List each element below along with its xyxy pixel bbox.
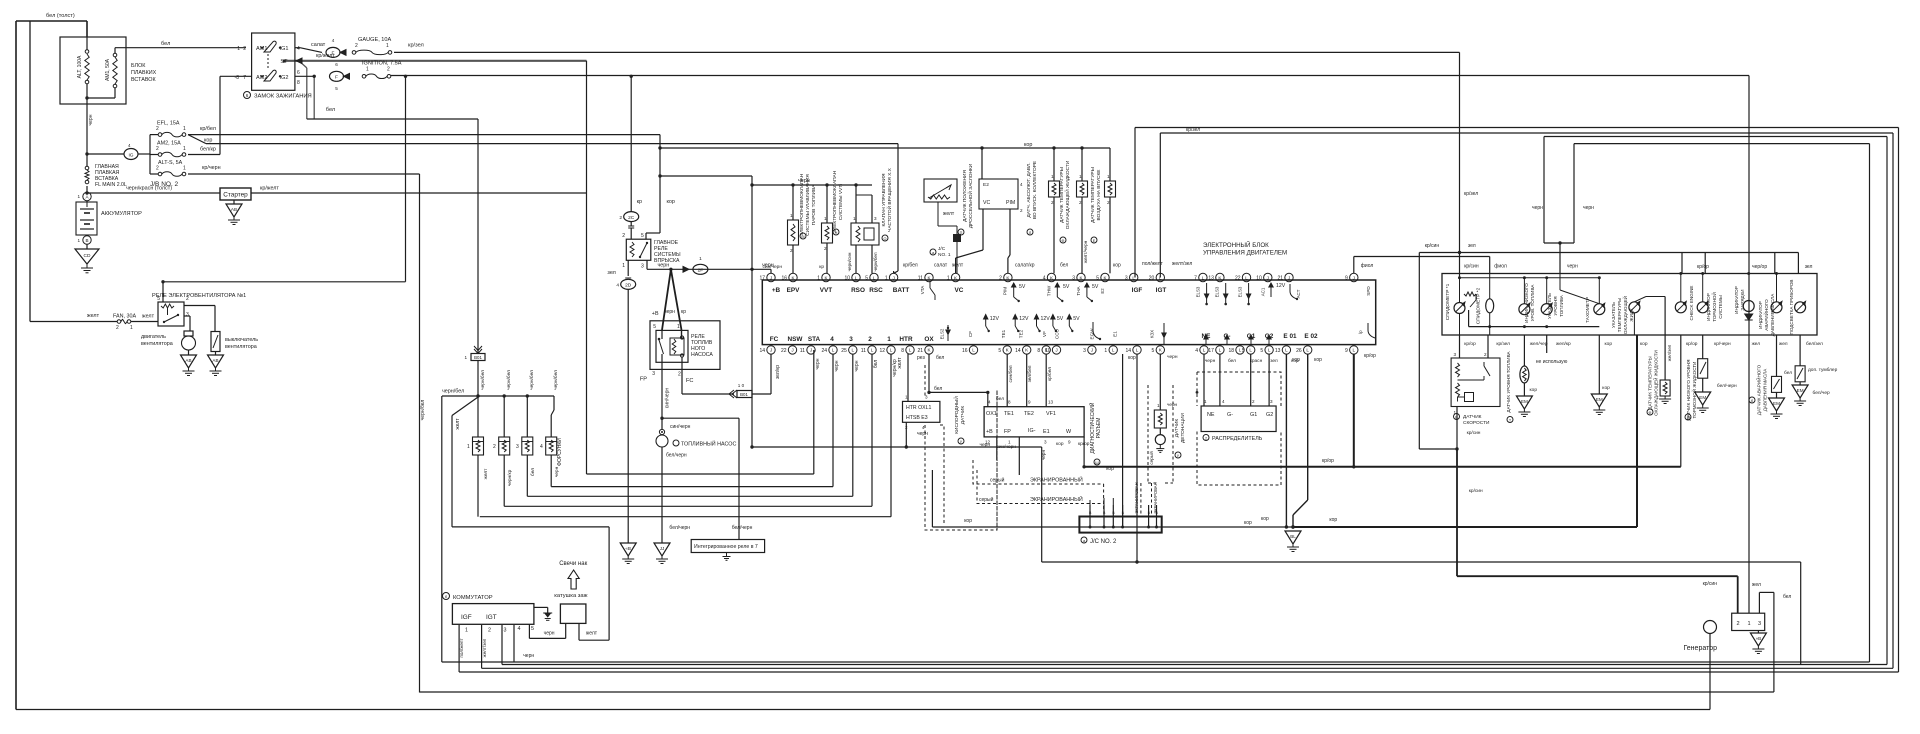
wire tach ground (1598, 335, 1600, 394)
svg-text:8: 8 (901, 348, 904, 354)
svg-text:кор: кор (1106, 466, 1114, 472)
wire IGF loop (1134, 128, 1136, 278)
svg-text:кр/зел: кр/зел (1496, 341, 1510, 347)
svg-text:кр/зел: кр/зел (408, 43, 424, 49)
svg-text:черн: черн (658, 263, 670, 269)
svg-text:ELS2: ELS2 (940, 328, 945, 339)
svg-text:21: 21 (1277, 276, 1283, 282)
wire speed sensor pin1 кр/син (1456, 407, 1458, 450)
svg-text:3: 3 (641, 264, 644, 270)
svg-text:HTSB E3: HTSB E3 (906, 415, 928, 421)
svg-text:VF1: VF1 (1046, 411, 1056, 417)
fuse ALT-S 5A (150, 173, 158, 175)
svg-text:пол/желт: пол/желт (1142, 261, 1164, 267)
svg-text:1: 1 (1748, 621, 1751, 627)
svg-text:J: J (1267, 275, 1269, 280)
wire ST thick to STA (284, 60, 587, 62)
svg-text:2: 2 (678, 372, 681, 378)
svg-text:L: L (972, 348, 975, 353)
svg-text:2: 2 (999, 276, 1002, 282)
wire FP to fuel pump (661, 354, 663, 429)
ground AB fan motor (188, 350, 190, 355)
svg-text:1: 1 (1008, 440, 1011, 445)
svg-text:черн/син: черн/син (847, 252, 852, 271)
svg-text:22: 22 (1235, 276, 1241, 282)
svg-text:ЭКРАНИРОВАН: ЭКРАНИРОВАН (1134, 482, 1139, 513)
sensor ДАТЧИК ТЕМПЕРАТУРЫ ОЖ indicator (1634, 297, 1646, 302)
svg-text:7: 7 (1194, 276, 1197, 282)
ground коммутатор (534, 606, 548, 608)
svg-text:кр/ор: кр/ор (1464, 341, 1476, 347)
wire кр/син thick to generator pin2 (1456, 449, 1458, 576)
svg-text:М: М (801, 235, 804, 239)
svg-text:L: L (1219, 348, 1222, 353)
wire кор E01 E02 to ground BL (1285, 354, 1287, 527)
svg-text:L: L (1353, 348, 1356, 353)
svg-text:J: J (791, 348, 793, 353)
svg-text:рез: рез (917, 355, 925, 361)
svg-text:12: 12 (879, 348, 885, 354)
svg-text:BATT: BATT (893, 287, 910, 294)
svg-text:ALT, 100A: ALT, 100A (77, 55, 83, 78)
battery АККУМУЛЯТОР (83, 192, 91, 200)
svg-text:1: 1 (677, 324, 680, 330)
svg-text:4: 4 (1195, 348, 1198, 354)
svg-text:4: 4 (1043, 276, 1046, 282)
wire зел instrument feed (1419, 252, 1798, 254)
svg-text:кр/желт: кр/желт (316, 53, 335, 59)
svg-text:L: L (1202, 275, 1205, 280)
svg-text:4: 4 (830, 336, 834, 343)
svg-text:черн: черн (815, 358, 821, 369)
svg-text:О: О (884, 237, 887, 241)
sensor ДАТЧИК СКОРОСТИ speed (1459, 314, 1461, 335)
cluster internal lower bus (1469, 326, 1600, 328)
svg-text:B01: B01 (740, 392, 748, 397)
svg-text:4: 4 (988, 400, 991, 405)
svg-text:ДАТЧИК АВАРИЙНОГО: ДАТЧИК АВАРИЙНОГО (1754, 364, 1761, 415)
svg-text:14: 14 (1015, 348, 1021, 354)
wire IG2 to IGNITION fuse (295, 75, 314, 77)
svg-text:Стартер: Стартер (223, 192, 248, 199)
svg-text:черн/бел: черн/бел (420, 400, 426, 421)
block Интегрированное реле (691, 540, 764, 553)
svg-text:1: 1 (183, 146, 186, 152)
svg-text:2: 2 (868, 336, 872, 343)
svg-text:FP: FP (1004, 429, 1011, 435)
svg-text:AC1: AC1 (1261, 287, 1266, 296)
svg-text:EM: EM (1797, 388, 1804, 393)
svg-text:EM: EM (1521, 399, 1528, 404)
svg-text:2F: 2F (698, 268, 704, 274)
svg-text:бел/черн: бел/черн (1717, 383, 1737, 389)
svg-text:J/C: J/C (938, 246, 946, 252)
label замок зажигания (244, 92, 251, 99)
svg-text:кор: кор (1113, 263, 1121, 269)
svg-text:фиол: фиол (1494, 264, 1507, 270)
svg-text:HTR OXL1: HTR OXL1 (906, 405, 931, 411)
svg-text:4: 4 (518, 626, 521, 632)
wire E1 ECU to bottom loop (1136, 354, 1138, 562)
wire fuel gauge не использую (1546, 335, 1548, 353)
svg-text:3: 3 (186, 312, 189, 318)
svg-text:E 02: E 02 (1304, 333, 1318, 340)
wire кор sensors bus (660, 147, 1110, 149)
svg-text:бел/чер: бел/чер (1813, 390, 1831, 396)
svg-text:3: 3 (652, 371, 655, 377)
motor ДВИГАТЕЛЬ ВЕНТИЛЯТОРА (184, 331, 193, 336)
svg-text:НАСОСА: НАСОСА (691, 352, 713, 358)
svg-text:1: 1 (237, 46, 240, 52)
svg-text:J: J (892, 275, 894, 280)
svg-text:ИНДИКАТОР: ИНДИКАТОР (1758, 301, 1763, 329)
svg-text:жел/зел: жел/зел (1667, 344, 1672, 361)
svg-text:9: 9 (1345, 348, 1348, 354)
svg-text:3: 3 (1758, 621, 1761, 627)
svg-text:5: 5 (1096, 276, 1099, 282)
svg-text:5: 5 (531, 626, 534, 632)
svg-text:бел/черн: бел/черн (732, 525, 753, 531)
svg-text:салат/кр: салат/кр (1015, 263, 1035, 269)
svg-text:1: 1 (885, 276, 888, 282)
switch ВЫКЛЮЧАТЕЛЬ ВЕНТИЛЯТОРА (211, 332, 220, 352)
svg-text:кор: кор (1056, 442, 1064, 447)
svg-text:ДАТЧИК: ДАТЧИК (1463, 414, 1482, 420)
svg-text:L: L (1159, 275, 1162, 280)
svg-text:бел: бел (530, 468, 536, 476)
node 1G to fuse rows (85, 152, 88, 155)
svg-text:бел: бел (1783, 594, 1791, 600)
svg-text:VF: VF (1042, 331, 1047, 337)
svg-text:1: 1 (467, 444, 470, 450)
svg-text:2: 2 (243, 46, 246, 52)
svg-text:1: 1 (1107, 174, 1110, 179)
svg-text:кор: кор (204, 138, 212, 144)
shield серый dashed bus (973, 460, 1104, 484)
svg-text:2: 2 (1737, 621, 1740, 627)
svg-text:J: J (810, 348, 812, 353)
svg-text:бел: бел (161, 41, 170, 47)
svg-text:желт: желт (484, 468, 489, 480)
svg-text:черн/бел: черн/бел (506, 370, 512, 390)
svg-text:зел/бел: зел/бел (1027, 365, 1033, 382)
svg-text:Генератор: Генератор (1683, 645, 1717, 652)
svg-text:VTA: VTA (920, 285, 925, 295)
svg-text:5: 5 (1260, 348, 1263, 354)
svg-text:2: 2 (1020, 208, 1023, 213)
wire кор main relay pin5 (659, 230, 661, 233)
svg-text:1: 1 (790, 213, 793, 218)
svg-text:2: 2 (493, 444, 496, 450)
svg-text:ДАТЧИК НИЗКОГО УРОВНЯ: ДАТЧИК НИЗКОГО УРОВНЯ (1686, 360, 1691, 421)
wires to injectors (477, 396, 479, 437)
svg-text:кор: кор (1261, 516, 1269, 522)
svg-text:PIM: PIM (1006, 200, 1015, 206)
svg-text:ВО ВПУСК. КОЛЛЕКТОРЕ: ВО ВПУСК. КОЛЛЕКТОРЕ (1032, 161, 1038, 219)
svg-text:ДАТЧИК: ДАТЧИК (1174, 419, 1180, 438)
svg-text:CHECK ENGINE: CHECK ENGINE (1689, 286, 1694, 321)
svg-text:черн: черн (1567, 264, 1578, 270)
svg-text:PIM: PIM (1003, 287, 1008, 295)
svg-text:12V: 12V (1276, 283, 1286, 289)
svg-text:желт: желт (455, 418, 461, 430)
wire кр/син into cluster (1459, 253, 1461, 278)
svg-text:IGT: IGT (1156, 287, 1167, 294)
svg-text:5: 5 (641, 233, 644, 239)
svg-text:черн: черн (834, 360, 840, 371)
svg-text:E2: E2 (983, 182, 989, 188)
svg-text:1 0: 1 0 (738, 383, 745, 388)
svg-text:L: L (873, 275, 876, 280)
svg-text:желт: желт (897, 357, 903, 369)
svg-text:ОХЛАЖДАЮЩЕЙ ЖИДКОСТИ: ОХЛАЖДАЮЩЕЙ ЖИДКОСТИ (1652, 350, 1659, 416)
svg-text:бел/зел: бел/зел (1806, 341, 1823, 347)
svg-text:AB: AB (231, 207, 237, 212)
svg-text:РАЗЪЕМ: РАЗЪЕМ (1096, 418, 1102, 439)
svg-text:бел: бел (936, 355, 944, 361)
svg-text:4: 4 (332, 38, 335, 43)
svg-text:SPD: SPD (1366, 286, 1371, 296)
svg-text:СПИДОМЕТР *2: СПИДОМЕТР *2 (1476, 287, 1482, 324)
svg-text:ЗАРЯДКИ: ЗАРЯДКИ (1740, 289, 1745, 310)
svg-text:FC: FC (686, 378, 693, 384)
svg-text:E 01: E 01 (1283, 333, 1297, 340)
svg-text:5V: 5V (1063, 284, 1070, 290)
svg-text:1: 1 (824, 216, 827, 221)
wire черн inside cluster to tach (1559, 274, 1561, 291)
svg-text:5: 5 (653, 324, 656, 330)
svg-text:кор: кор (1605, 342, 1613, 347)
connector F gauge (326, 47, 340, 57)
svg-text:17: 17 (1208, 348, 1214, 354)
svg-text:14: 14 (1125, 348, 1131, 354)
svg-text:Ш: Ш (1095, 461, 1099, 465)
svg-text:кор: кор (1128, 355, 1136, 361)
connector B01 fuel (729, 390, 734, 398)
svg-text:доп. тумблер: доп. тумблер (1808, 367, 1838, 373)
svg-text:VC: VC (955, 287, 964, 294)
svg-text:ACT: ACT (1296, 289, 1301, 298)
svg-text:черн: черн (917, 431, 928, 437)
svg-text:бел: бел (326, 107, 335, 113)
switch key contacts (264, 41, 276, 52)
svg-text:кр: кр (681, 309, 686, 315)
svg-text:УРОВ. ТОПЛИВА: УРОВ. ТОПЛИВА (1530, 284, 1535, 322)
svg-text:кор: кор (1640, 342, 1648, 347)
svg-text:EM: EM (1699, 395, 1706, 400)
svg-text:ОХЛАЖДАЮЩЕЙ: ОХЛАЖДАЮЩЕЙ (1621, 296, 1628, 334)
svg-text:B01: B01 (474, 355, 482, 360)
svg-text:1: 1 (1051, 174, 1054, 179)
wire черн to solenoid bus (660, 175, 752, 177)
svg-text:9: 9 (1345, 276, 1348, 282)
svg-text:ИНДИКАТОР: ИНДИКАТОР (1734, 286, 1739, 314)
svg-text:HTR: HTR (899, 336, 913, 343)
svg-text:GAUGE, 10A: GAUGE, 10A (358, 37, 392, 43)
svg-text:черн: черн (1167, 355, 1178, 360)
svg-text:NO. 1: NO. 1 (938, 252, 951, 258)
svg-text:AB: AB (212, 358, 218, 363)
svg-text:ELS3: ELS3 (1215, 286, 1220, 297)
svg-text:син/черн: син/черн (670, 424, 691, 430)
wire fan relay to ignition junction (163, 281, 406, 283)
svg-text:желт: желт (87, 313, 100, 319)
svg-text:22: 22 (781, 348, 787, 354)
svg-text:БЛОК: БЛОК (131, 63, 146, 69)
svg-text:черн: черн (544, 631, 555, 637)
wire main relay output to fuel pump relay (662, 269, 671, 330)
svg-text:5: 5 (1152, 348, 1155, 354)
svg-text:20: 20 (1149, 276, 1155, 282)
wires ECU to diag connector (1006, 354, 1008, 407)
svg-text:черн/бел: черн/бел (480, 370, 486, 390)
svg-text:1: 1 (77, 194, 80, 199)
svg-text:кр/ор: кр/ор (1322, 458, 1334, 464)
fuse ALT 100A (86, 37, 88, 50)
svg-text:кор: кор (1244, 520, 1252, 526)
svg-text:кор: кор (964, 518, 972, 524)
svg-text:желт: желт (952, 263, 964, 269)
svg-text:Е: Е (1093, 239, 1096, 243)
svg-text:IG-: IG- (1028, 428, 1036, 434)
wire кор J/C ground bus (932, 526, 1293, 528)
svg-text:EFL, 15A: EFL, 15A (157, 121, 180, 127)
svg-text:вентилятора: вентилятора (225, 344, 257, 350)
shield oxygen sensor dashed (925, 365, 997, 530)
svg-text:кр/ор: кр/ор (1364, 353, 1376, 359)
svg-text:РЕЛЕ ЭЛЕКТРОВЕНТИЛЯТОРА №1: РЕЛЕ ЭЛЕКТРОВЕНТИЛЯТОРА №1 (152, 293, 246, 299)
svg-text:ЭКРАНИРОВАННЫЙ: ЭКРАНИРОВАННЫЙ (1030, 495, 1083, 503)
cluster internal bus (1460, 277, 1600, 279)
wire кр/син branch to speed sensor (1418, 253, 1420, 450)
svg-text:син/бел: син/бел (1008, 365, 1014, 382)
svg-text:ФОРСУНКИ: ФОРСУНКИ (557, 438, 563, 466)
pump ТОПЛИВНЫЙ НАСОС fuel pump (659, 429, 664, 434)
svg-text:2: 2 (156, 166, 159, 172)
svg-text:СИСТЕМЫ УЛАВЛИВАНИЯ: СИСТЕМЫ УЛАВЛИВАНИЯ (805, 174, 811, 236)
junction J/C NO.1 (953, 234, 961, 242)
wire fuel pump branch to integrated relay (662, 417, 739, 419)
svg-text:кр/зел: кр/зел (1186, 127, 1200, 133)
connector F ignition (330, 71, 344, 81)
svg-text:черн: черн (88, 114, 94, 125)
svg-text:ТОРМОЗНОЙ: ТОРМОЗНОЙ (1710, 292, 1717, 322)
svg-text:ELS3: ELS3 (1196, 286, 1201, 297)
svg-text:2: 2 (622, 233, 625, 239)
svg-text:J/C NO. 2: J/C NO. 2 (1090, 539, 1117, 545)
svg-text:J: J (1353, 275, 1355, 280)
wire E1 to J/C (1122, 354, 1124, 527)
svg-text:вентилятора: вентилятора (141, 341, 173, 347)
svg-text:TE1: TE1 (1004, 411, 1014, 417)
connector B01 injector feed (474, 349, 482, 354)
svg-text:жел: жел (1752, 342, 1761, 347)
wire main relay pin3 черн (646, 260, 648, 269)
connector VC PIM E2 block (979, 179, 1018, 209)
svg-text:2: 2 (619, 215, 622, 221)
ECU top pin row (767, 273, 775, 281)
svg-text:3: 3 (1072, 276, 1075, 282)
svg-text:3: 3 (874, 216, 877, 221)
svg-text:ЭЛЕКТРОПНЕВМОКЛАПАН: ЭЛЕКТРОПНЕВМОКЛАПАН (799, 173, 805, 236)
svg-text:VVT: VVT (820, 287, 833, 294)
svg-text:L: L (1306, 348, 1309, 353)
svg-text:14: 14 (759, 348, 765, 354)
ground B generator (1757, 631, 1759, 634)
relay ГЛАВНОЕ РЕЛЕ СИСТЕМЫ ВПРЫСКА main relay (626, 239, 651, 260)
block КОММУТАТОР igniter (443, 593, 450, 600)
solenoid bus черн (752, 184, 872, 186)
terminal ring circle (1704, 621, 1717, 634)
svg-text:желт/зел: желт/зел (482, 638, 487, 657)
svg-text:3: 3 (849, 336, 853, 343)
svg-text:7: 7 (243, 75, 246, 81)
svg-text:ТЕМПЕРАТУРЫ: ТЕМПЕРАТУРЫ (1617, 298, 1622, 332)
svg-text:OX: OX (924, 336, 934, 343)
svg-text:ЭЛЕКТРОПНЕВМОКЛАПАН: ЭЛЕКТРОПНЕВМОКЛАПАН (832, 170, 838, 233)
svg-text:OX1: OX1 (986, 411, 997, 417)
svg-text:L: L (871, 348, 874, 353)
svg-text:кр/син: кр/син (1703, 581, 1718, 587)
svg-text:бел/черн: бел/черн (669, 525, 690, 531)
svg-text:»B: »B (1756, 636, 1762, 641)
svg-text:черн: черн (854, 360, 860, 371)
block Стартер (220, 188, 251, 200)
svg-text:син/черн: син/черн (665, 388, 671, 409)
svg-text:IGF: IGF (461, 614, 472, 621)
svg-text:B: B (85, 238, 88, 243)
svg-text:5: 5 (157, 296, 160, 302)
svg-text:кр/зел: кр/зел (1464, 191, 1478, 197)
svg-text:ELS3: ELS3 (1238, 286, 1243, 297)
svg-text:черн: черн (1167, 402, 1178, 407)
wire бел to switch (115, 47, 246, 49)
svg-text:бел: бел (1228, 358, 1236, 364)
block HTR OXL1 HTSB E3 oxygen heater (903, 401, 940, 422)
svg-text:10: 10 (1256, 276, 1262, 282)
svg-text:5V: 5V (1057, 316, 1064, 322)
svg-text:FL MAIN 2.0L: FL MAIN 2.0L (95, 182, 127, 188)
svg-text:2: 2 (156, 126, 159, 132)
svg-text:9: 9 (1028, 400, 1031, 405)
svg-text:2: 2 (355, 43, 358, 49)
svg-text:Е2: Е2 (1100, 288, 1105, 294)
svg-text:«B: «B (625, 546, 631, 551)
svg-text:9: 9 (1068, 440, 1071, 445)
svg-text:J: J (770, 275, 772, 280)
wire fuel pump to ground JJ (661, 447, 663, 543)
svg-text:5: 5 (335, 86, 338, 91)
svg-text:L: L (1285, 348, 1288, 353)
svg-text:черн: черн (980, 443, 991, 448)
sensor ДАТЧ АБСОЛЮТ ДАВЛ МАП (1052, 146, 1055, 149)
wire HTR ground line (752, 446, 1042, 448)
svg-text:8: 8 (1008, 400, 1011, 405)
svg-text:4: 4 (1222, 399, 1225, 404)
wire U bottom into cluster (1544, 242, 1574, 244)
wire fusebox drop (86, 21, 88, 37)
svg-text:кор: кор (1024, 142, 1032, 148)
svg-text:ВОЗДУХА НА ВПУСКЕ: ВОЗДУХА НА ВПУСКЕ (1096, 170, 1102, 221)
cluster box instrument panel (1442, 274, 1817, 336)
fuse IGNITION 7.5A (362, 75, 366, 79)
svg-text:1: 1 (1079, 174, 1082, 179)
svg-text:кр: кр (637, 199, 642, 205)
svg-text:кор: кор (1314, 357, 1322, 363)
svg-text:ЭКРАНИРОВАННЫЙ: ЭКРАНИРОВАННЫЙ (1030, 476, 1083, 484)
svg-text:жел/чер: жел/чер (1530, 341, 1548, 347)
svg-text:IG: IG (128, 153, 133, 159)
